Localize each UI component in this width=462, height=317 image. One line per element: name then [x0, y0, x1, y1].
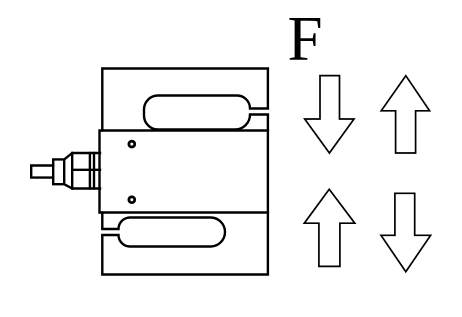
screw hole upper [129, 141, 135, 147]
bottom slot with left-opening slit [102, 218, 225, 247]
cable gland washer line 1 [89, 153, 91, 189]
screw hole lower [129, 197, 135, 203]
cable gland nut mid line [72, 169, 100, 171]
top slot with right-opening slit [144, 96, 268, 130]
load cell bottom block left edge upper segment [101, 213, 103, 228]
load cell upper block [102, 69, 268, 131]
svg-text:F: F [288, 4, 323, 74]
load cell right edge below top slit, bottom edge, bottom-left edge lower segment [102, 116, 268, 275]
cable gland ferrule [53, 159, 64, 184]
cable gland nut body [72, 153, 100, 189]
cable stub [31, 166, 53, 178]
load cell middle block [100, 131, 268, 213]
arrow down (top-left) [305, 76, 354, 153]
arrow up (top-right) [381, 76, 429, 153]
cable gland washer line 2 [93, 153, 95, 189]
cable gland cone top [64, 153, 72, 159]
cable gland cone bottom [64, 184, 72, 188]
arrow down (bottom-right) [381, 193, 431, 271]
arrow up (bottom-left) [304, 189, 355, 266]
